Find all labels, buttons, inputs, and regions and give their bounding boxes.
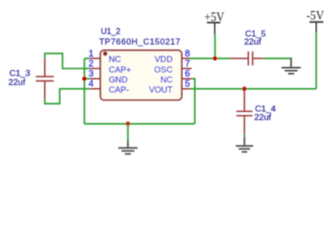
svg-text:7: 7 [185,58,190,68]
svg-text:22uf: 22uf [254,112,271,122]
wire C1_3 bottom to pin4 [45,89,91,104]
svg-text:22uf: 22uf [244,37,261,47]
pin 8 [182,57,192,59]
wire pin6 riser [192,79,195,124]
svg-text:2: 2 [88,58,93,68]
wire +5V drop [214,34,216,58]
wire pin1 stub [84,57,90,59]
wire ground rail [84,123,194,125]
wire -5V drop [315,32,317,89]
pin 2 [90,68,100,70]
junction dot +5V [213,56,217,60]
wire C1_3 top to pin2 [45,53,91,68]
pin1 marker dot [103,52,107,56]
pin 1 [90,57,100,59]
wire VDD rail [189,57,230,59]
junction dot VOUT/C1_4 [242,87,246,91]
pin 5 [182,88,192,90]
wire GND trunk [83,58,85,123]
ground GND1 [118,140,137,154]
power -5V [306,7,324,32]
svg-text:NC: NC [109,54,121,64]
svg-text:TP7660H_C150217: TP7660H_C150217 [99,36,180,46]
svg-text:4: 4 [88,79,93,89]
wire pin3 stub [84,78,90,80]
wire ground1 lead [127,124,129,141]
svg-text:CAP+: CAP+ [109,64,131,74]
svg-text:6: 6 [185,69,190,79]
svg-text:NC: NC [160,75,172,85]
pin 3 [90,78,100,80]
wire VOUT rail [190,88,316,90]
svg-text:GND: GND [109,75,128,85]
ground GND2 [236,137,253,152]
power +5V [204,10,225,34]
svg-text:3: 3 [88,69,93,79]
pin 6 [182,78,192,80]
svg-text:8: 8 [185,48,190,58]
pin 7 [182,68,192,70]
svg-text:22uf: 22uf [8,77,25,87]
svg-text:5: 5 [185,79,190,89]
svg-text:-5V: -5V [306,7,324,22]
svg-text:CAP-: CAP- [109,85,129,95]
junction dot ground rail [126,122,130,126]
svg-text:VDD: VDD [155,54,173,64]
IC U1_2 TP7660H body [100,50,181,100]
junction dot pin3 [82,77,86,81]
svg-text:U1_2: U1_2 [101,27,121,36]
svg-text:OSC: OSC [154,64,172,74]
wire C1_4 bottom lead [243,134,245,137]
ground GND3 [282,58,301,74]
capacitor C1_3 [36,59,54,100]
capacitor C1_4 [236,89,252,134]
capacitor C1_5 [230,51,263,65]
svg-text:VOUT: VOUT [149,85,173,95]
pin 4 [90,88,100,90]
wire C1_5 right to ground [263,57,291,59]
svg-text:1: 1 [88,48,93,58]
